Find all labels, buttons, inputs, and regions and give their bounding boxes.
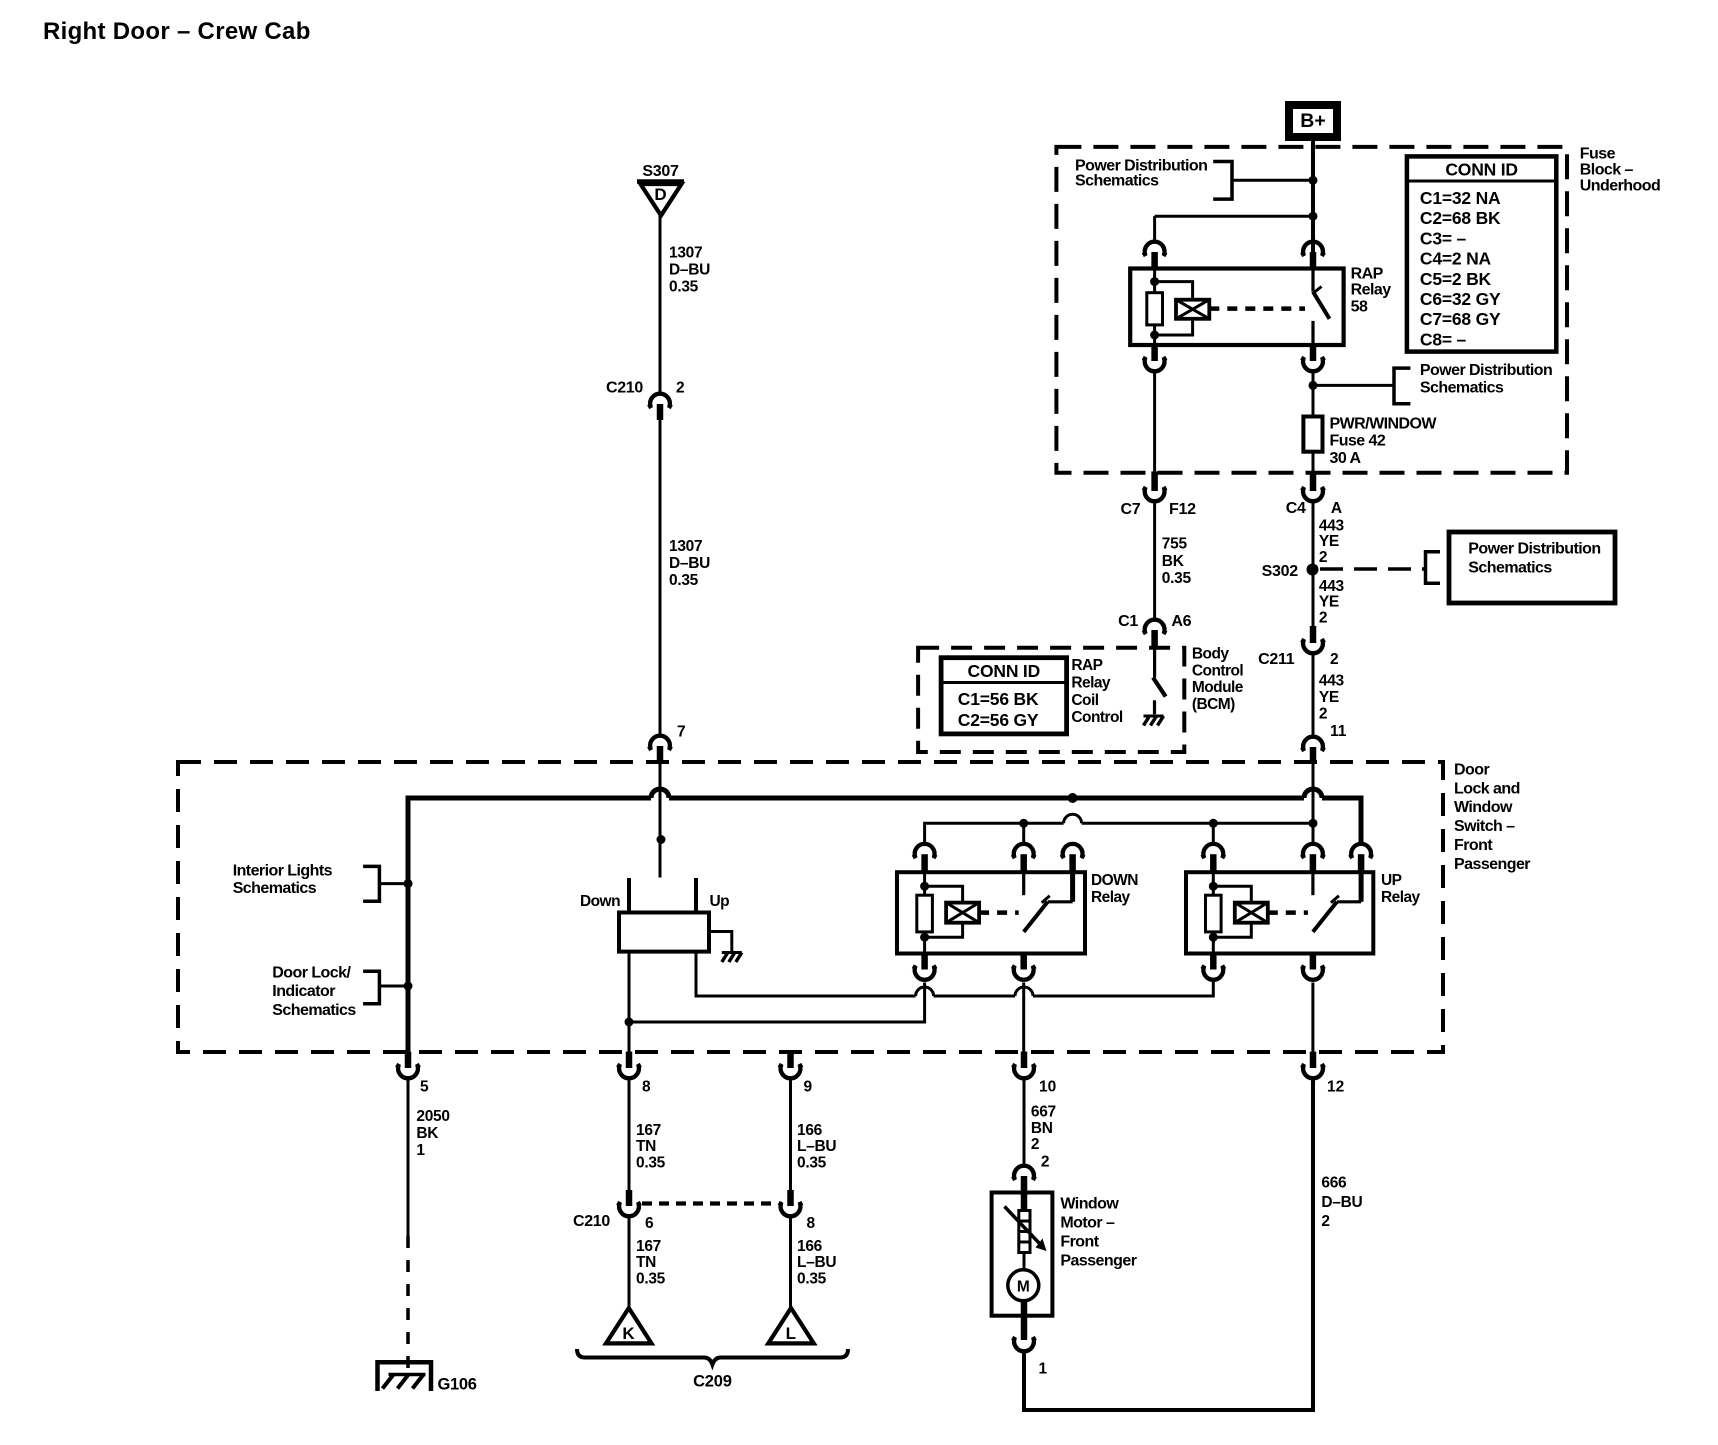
svg-text:666: 666: [1321, 1175, 1347, 1192]
svg-text:Front: Front: [1060, 1233, 1099, 1250]
svg-text:TN: TN: [636, 1138, 656, 1155]
svg-text:Schematics: Schematics: [1420, 380, 1504, 397]
svg-text:C8= –: C8= –: [1420, 329, 1467, 349]
svg-text:D: D: [654, 185, 666, 204]
svg-text:Control: Control: [1071, 709, 1122, 726]
svg-text:G106: G106: [438, 1376, 477, 1394]
svg-text:Passenger: Passenger: [1454, 856, 1530, 873]
svg-text:M: M: [1017, 1279, 1030, 1296]
svg-text:0.35: 0.35: [1162, 570, 1192, 587]
svg-text:(BCM): (BCM): [1192, 696, 1235, 713]
svg-text:2: 2: [676, 380, 685, 397]
svg-text:Schematics: Schematics: [233, 880, 317, 897]
svg-text:2: 2: [1041, 1154, 1050, 1171]
svg-text:12: 12: [1327, 1078, 1344, 1095]
svg-text:DOWN: DOWN: [1091, 872, 1138, 889]
svg-text:CONN ID: CONN ID: [1445, 160, 1518, 180]
svg-text:B+: B+: [1300, 110, 1325, 132]
svg-text:1: 1: [1039, 1361, 1048, 1378]
svg-text:Passenger: Passenger: [1060, 1252, 1136, 1269]
svg-text:Front: Front: [1454, 837, 1493, 854]
svg-text:Lock and: Lock and: [1454, 780, 1520, 797]
svg-text:C4=2 NA: C4=2 NA: [1420, 249, 1492, 269]
svg-text:Relay: Relay: [1351, 282, 1392, 299]
svg-text:30 A: 30 A: [1330, 450, 1362, 467]
svg-text:Door: Door: [1454, 761, 1489, 778]
svg-text:443: 443: [1319, 518, 1345, 535]
svg-text:Fuse: Fuse: [1580, 146, 1616, 163]
svg-text:C4: C4: [1286, 500, 1306, 517]
svg-text:C2=68 BK: C2=68 BK: [1420, 208, 1501, 228]
svg-text:C7: C7: [1121, 501, 1141, 518]
svg-text:443: 443: [1319, 578, 1345, 595]
svg-text:Right Door – Crew Cab: Right Door – Crew Cab: [43, 18, 311, 45]
svg-text:C1=32 NA: C1=32 NA: [1420, 188, 1501, 208]
svg-text:Relay: Relay: [1091, 889, 1131, 906]
svg-text:C1: C1: [1118, 613, 1138, 630]
svg-text:Schematics: Schematics: [1468, 559, 1552, 576]
svg-text:Switch –: Switch –: [1454, 818, 1515, 835]
svg-text:C3= –: C3= –: [1420, 228, 1467, 248]
svg-text:F12: F12: [1169, 501, 1196, 518]
svg-text:Fuse 42: Fuse 42: [1330, 433, 1386, 450]
svg-text:2: 2: [1321, 1213, 1329, 1230]
svg-text:9: 9: [804, 1078, 813, 1095]
svg-text:L: L: [786, 1324, 796, 1343]
svg-text:C6=32 GY: C6=32 GY: [1420, 289, 1501, 309]
svg-text:0.35: 0.35: [636, 1154, 666, 1171]
svg-text:443: 443: [1319, 673, 1345, 690]
svg-text:PWR/WINDOW: PWR/WINDOW: [1330, 416, 1438, 433]
svg-text:0.35: 0.35: [797, 1154, 827, 1171]
svg-text:UP: UP: [1381, 872, 1402, 889]
svg-text:A6: A6: [1171, 613, 1191, 630]
svg-text:L–BU: L–BU: [797, 1138, 836, 1155]
svg-text:2: 2: [1031, 1136, 1039, 1153]
svg-text:Relay: Relay: [1071, 674, 1111, 691]
svg-text:YE: YE: [1319, 689, 1339, 706]
svg-text:BK: BK: [416, 1125, 439, 1142]
svg-text:D–BU: D–BU: [669, 555, 710, 572]
svg-text:2: 2: [1319, 609, 1327, 626]
svg-text:Coil: Coil: [1071, 692, 1098, 709]
svg-text:5: 5: [420, 1078, 429, 1095]
svg-text:166: 166: [797, 1238, 823, 1255]
svg-text:1307: 1307: [669, 538, 702, 555]
svg-text:2: 2: [1319, 706, 1327, 723]
svg-text:0.35: 0.35: [669, 572, 699, 589]
svg-text:Schematics: Schematics: [272, 1002, 356, 1019]
svg-text:Block –: Block –: [1580, 162, 1634, 179]
svg-text:Indicator: Indicator: [272, 983, 335, 1000]
svg-text:166: 166: [797, 1122, 823, 1139]
svg-text:CONN ID: CONN ID: [968, 661, 1041, 681]
svg-text:D–BU: D–BU: [1321, 1194, 1362, 1211]
svg-text:Schematics: Schematics: [1075, 173, 1159, 190]
svg-text:Underhood: Underhood: [1580, 178, 1660, 195]
svg-text:11: 11: [1330, 723, 1347, 740]
svg-text:2: 2: [1330, 651, 1339, 668]
svg-text:167: 167: [636, 1238, 661, 1255]
svg-text:C209: C209: [693, 1373, 732, 1391]
svg-text:2: 2: [1319, 549, 1327, 566]
svg-text:Motor –: Motor –: [1060, 1214, 1115, 1231]
svg-text:8: 8: [642, 1078, 651, 1095]
svg-text:BK: BK: [1162, 553, 1185, 570]
svg-text:YE: YE: [1319, 594, 1339, 611]
svg-text:C5=2 BK: C5=2 BK: [1420, 269, 1492, 289]
svg-text:Module: Module: [1192, 679, 1244, 696]
svg-text:Window: Window: [1454, 799, 1513, 816]
svg-text:YE: YE: [1319, 533, 1339, 550]
svg-text:Power Distribution: Power Distribution: [1420, 362, 1552, 379]
svg-text:C210: C210: [606, 380, 643, 397]
svg-text:Door Lock/: Door Lock/: [272, 964, 351, 981]
svg-text:K: K: [622, 1324, 635, 1343]
svg-text:RAP: RAP: [1351, 266, 1384, 283]
svg-text:L–BU: L–BU: [797, 1254, 836, 1271]
svg-text:6: 6: [645, 1215, 654, 1232]
svg-text:TN: TN: [636, 1254, 656, 1271]
svg-text:Body: Body: [1192, 646, 1229, 663]
svg-text:S307: S307: [642, 163, 679, 180]
svg-text:Relay: Relay: [1381, 889, 1421, 906]
svg-text:C210: C210: [573, 1213, 610, 1230]
svg-text:D–BU: D–BU: [669, 262, 710, 279]
svg-text:0.35: 0.35: [797, 1270, 827, 1287]
svg-text:0.35: 0.35: [636, 1270, 666, 1287]
svg-text:Down: Down: [580, 893, 620, 910]
svg-text:755: 755: [1162, 536, 1188, 553]
svg-text:A: A: [1331, 500, 1342, 517]
svg-text:S302: S302: [1262, 563, 1299, 580]
svg-text:1: 1: [416, 1142, 425, 1159]
svg-text:Up: Up: [710, 893, 730, 910]
svg-text:C2=56 GY: C2=56 GY: [958, 710, 1039, 730]
svg-text:C7=68 GY: C7=68 GY: [1420, 309, 1501, 329]
svg-text:167: 167: [636, 1122, 661, 1139]
svg-text:10: 10: [1039, 1078, 1056, 1095]
svg-text:58: 58: [1351, 299, 1368, 316]
svg-text:2050: 2050: [416, 1108, 449, 1125]
svg-text:Control: Control: [1192, 663, 1243, 680]
svg-text:667: 667: [1031, 1104, 1056, 1121]
svg-text:Window: Window: [1060, 1195, 1119, 1212]
svg-text:Interior Lights: Interior Lights: [233, 863, 333, 880]
svg-text:RAP: RAP: [1071, 657, 1102, 674]
svg-text:BN: BN: [1031, 1120, 1053, 1137]
svg-text:1307: 1307: [669, 245, 702, 262]
svg-text:C211: C211: [1258, 651, 1295, 668]
svg-text:C1=56 BK: C1=56 BK: [958, 689, 1039, 709]
svg-text:7: 7: [677, 724, 686, 741]
svg-text:8: 8: [807, 1215, 816, 1232]
svg-text:Power Distribution: Power Distribution: [1468, 541, 1600, 558]
svg-text:0.35: 0.35: [669, 279, 699, 296]
